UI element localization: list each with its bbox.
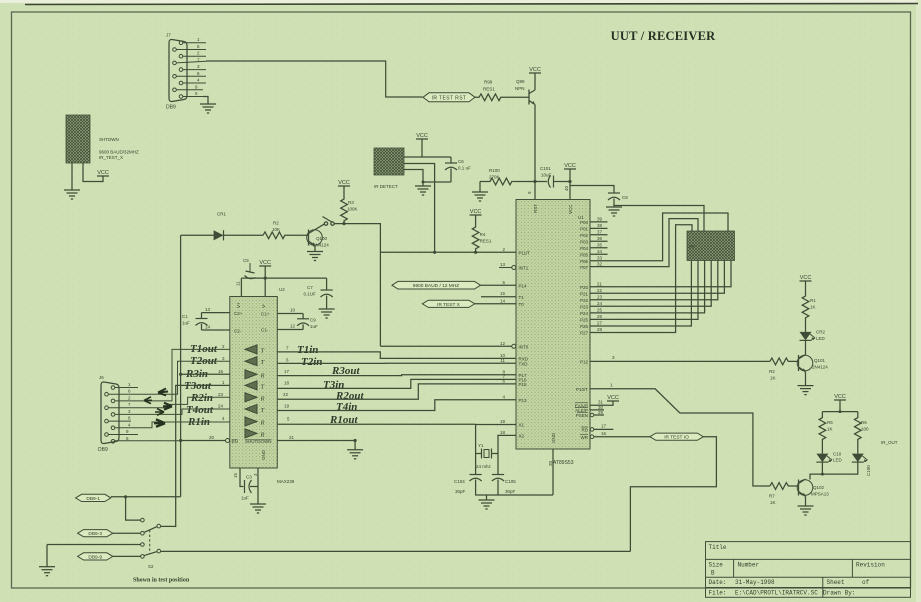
resistor R4 RES1 pullup [472,215,479,253]
U1 right pin numbers 39-32 [597,217,603,267]
wire U2 pin17 R3out to U1 P17 [277,374,516,377]
svg-text:30pF: 30pF [455,489,466,494]
wire IR TEST IO to switch S2 net [630,437,716,552]
svg-text:15: 15 [500,291,506,296]
svg-text:28: 28 [597,327,603,332]
svg-text:35: 35 [597,243,603,248]
wire J6 pin3 to T4out net [115,409,230,414]
crystal Y1 24mhz [482,449,492,459]
capacitor C6 0.1uF [445,157,471,182]
svg-text:13: 13 [205,307,211,312]
S2 upper throw contact [141,518,145,522]
wire J7 pin7 to IR TEST RST [206,61,423,97]
svg-text:R2: R2 [273,221,279,226]
svg-text:P07: P07 [580,265,589,270]
svg-text:19: 19 [500,419,506,424]
wire J6 pin7 to R2in net [108,397,230,407]
wire DB9-1 branch to S2 upper throw [126,497,141,520]
resistor R2 10K [263,221,289,239]
svg-text:LED: LED [833,458,843,463]
svg-text:IR_TEST_X: IR_TEST_X [99,155,123,160]
ground symbol under crystal [479,500,495,509]
title block texts [709,544,886,596]
svg-text:SHUTDOWN: SHUTDOWN [245,439,272,444]
ground rail under crystal caps [476,480,553,496]
wire J6 pin6 to T2out net [108,361,230,394]
U1 pin 20 GND bottom [552,449,554,495]
VCC above R4 RES1 [470,209,482,215]
svg-text:PSEN: PSEN [576,413,588,418]
wire U2 pin21 to ground junction [277,440,355,442]
svg-text:19: 19 [284,404,290,409]
wire X1 to Y1 [476,425,516,454]
svg-text:SHTDWN: SHTDWN [99,137,119,142]
svg-text:11: 11 [236,281,241,286]
capacitor C1 1uF (C2+/C2-) [182,313,208,330]
svg-text:15: 15 [233,472,238,478]
svg-text:24 mhz: 24 mhz [476,464,492,469]
svg-text:Number: Number [738,562,760,569]
svg-text:Sheet: Sheet [827,579,845,586]
VCC rail split [822,411,857,413]
svg-text:22: 22 [283,392,289,397]
svg-text:21: 21 [289,435,295,440]
svg-text:25: 25 [597,308,603,313]
wire C101 to VCC node and U1 pin40 [554,181,571,183]
svg-text:MAX239: MAX239 [277,479,295,484]
U2 right pin numbers 7,6,17,18,22,19,5,21 [283,346,295,441]
wire U2 pin18 T3in to U1 P16 [277,379,516,388]
diode CR1 [181,212,227,241]
svg-text:DB9-9: DB9-9 [88,554,102,560]
U2 buffer triangles [245,345,265,439]
svg-text:P15: P15 [519,382,528,387]
wire CR1 to R2 [224,234,264,236]
svg-text:9600 BAUD/32MHZ: 9600 BAUD/32MHZ [99,150,139,155]
LED C10 [816,452,842,463]
ALE/P pin 30 stub [590,409,604,411]
svg-text:V-: V- [261,303,266,308]
svg-text:RES1: RES1 [480,239,492,244]
net label IR TEST IO [650,433,703,440]
S2a arm [144,527,157,533]
svg-text:13: 13 [500,262,506,267]
wire IR DETECT pin1 / VCC / C6 top [404,156,451,158]
handwritten arrow right on pin3 row [155,409,164,416]
ground under R100 [479,182,481,193]
svg-text:P01: P01 [580,227,589,232]
U1 P00-P05 stubs [590,222,608,254]
wire P14 row [481,284,517,286]
svg-text:RES1: RES1 [483,87,495,92]
wires P20-P26 to RP1 bottom [590,261,731,327]
wire DB9-3 to S2a pole [113,532,141,534]
svg-text:20: 20 [209,435,215,440]
capacitor C3 1uF at U2 pin15 [240,475,258,501]
wire P27 to RP1 top [590,225,692,333]
svg-text:30pF: 30pF [505,489,516,494]
svg-text:UUT / RECEIVER: UUT / RECEIVER [611,29,716,43]
J6 pin circles [105,386,115,443]
wire U2 pin22 R2out to U1 P15 [277,384,516,399]
ground at far left [46,545,48,567]
svg-text:T: T [261,407,265,414]
wire VCC node to bypass C8 and RP1 common [570,186,614,194]
svg-text:LED: LED [816,336,826,341]
svg-text:P06: P06 [580,259,589,264]
svg-text:C8: C8 [622,195,628,200]
wire J6 pin2 to T1out net [115,349,230,401]
svg-text:12: 12 [500,341,506,346]
svg-text:Title: Title [709,544,727,551]
ground at Q102 emitter [805,496,807,506]
net label DB9-1 [76,494,111,501]
svg-text:12: 12 [290,324,296,329]
svg-text:Q100: Q100 [316,236,328,241]
svg-text:R2in: R2in [190,392,213,404]
junction at U2 pin21 ground [354,439,357,442]
test switch S1 above Q100 [314,217,335,231]
svg-text:RD: RD [582,428,589,433]
wire U2 pin5 R1out to X1 node [277,423,475,425]
capacitor C8 bypass [608,192,620,194]
wire INT0 to P1.1 node [380,345,511,347]
svg-text:22: 22 [597,288,603,293]
svg-text:1K: 1K [827,427,833,432]
svg-text:P05: P05 [580,253,589,258]
U2 pin 14 lead [202,329,230,331]
svg-text:C105: C105 [505,479,516,484]
header J8 VCC leg [83,163,103,182]
svg-text:C104: C104 [454,479,465,484]
ground at Q100 emitter [314,246,316,252]
svg-text:T1: T1 [519,295,525,300]
svg-text:R3: R3 [348,200,354,205]
svg-text:31-May-1998: 31-May-1998 [735,579,775,586]
svg-text:9600 BAUD / 12 MHZ: 9600 BAUD / 12 MHZ [413,283,459,289]
svg-text:38: 38 [597,223,603,228]
net label 9600 BAUD / 12 MHZ [392,281,481,289]
svg-text:32: 32 [597,261,603,266]
svg-text:R6: R6 [861,420,867,425]
svg-text:C5: C5 [243,258,249,263]
svg-text:T1in: T1in [297,344,318,356]
svg-text:R8: R8 [689,244,695,249]
svg-text:J7: J7 [166,33,171,38]
wire S2a throw to T3out vertical [161,525,176,527]
svg-text:P23: P23 [580,305,589,310]
wire S1 to R3 to P1.1 vertical [334,224,380,347]
svg-text:S2: S2 [148,564,154,569]
svg-text:T: T [261,347,265,354]
svg-text:14: 14 [205,325,211,330]
VCC above IR LEDs [834,394,846,400]
svg-text:of: of [862,579,870,586]
svg-text:0.1UF: 0.1UF [304,292,317,297]
capacitor C104 30pF [475,454,477,475]
svg-text:P11/T: P11/T [519,251,531,256]
long vertical CR1/R3in/EN net [180,235,182,497]
svg-text:DB9-3: DB9-3 [88,531,102,537]
wire P07 to RP1 top [590,219,698,267]
scanner edge line top [25,4,918,5]
ground under IR DETECT [422,182,424,186]
svg-text:IR DETECT: IR DETECT [374,184,398,189]
U2 internal pin names top [234,302,270,334]
svg-text:31: 31 [598,400,604,405]
capacitor C5 (polarized, at U2 pin 11) [243,258,256,279]
svg-text:C1+: C1+ [261,312,270,317]
connector J7 DB9 (top-left) [169,39,187,101]
svg-text:C101: C101 [540,166,551,171]
RD pin 17 stub with bubble [590,428,594,432]
handwritten arrow left on pin6 row [158,389,168,396]
svg-text:CR2: CR2 [816,330,825,335]
WR pin 16 with bubble to IR TEST IO [590,435,594,439]
connector J6 DB9 (bottom-left) [101,382,119,444]
U2 pin 15 bottom lead [239,468,241,480]
microcontroller U1 AT89S53 body [516,200,590,467]
IR DETECT module U3 (hatched) [374,148,404,189]
svg-text:17: 17 [284,369,290,374]
svg-text:T: T [261,359,265,366]
handwritten arrow right (filled) on pin7 row [163,403,172,410]
transistor Q100 2N4124 [289,230,323,246]
U1 right pin names lower group [575,360,589,440]
svg-text:GND: GND [261,449,266,460]
LED cathode rail to Q102 collector [810,462,858,479]
svg-text:C1-: C1- [261,328,269,333]
junction R3in/vertical [179,373,182,376]
svg-text:R: R [260,395,265,402]
S2a pole contact [141,531,145,535]
resistor R6 100 [855,412,862,454]
svg-text:C3: C3 [246,475,252,480]
svg-text:X1: X1 [519,423,525,428]
svg-text:P22: P22 [580,298,589,303]
svg-text:P12: P12 [580,360,589,365]
wire DB9-9 to S2b pole [113,555,141,557]
svg-text:20: 20 [548,460,553,466]
svg-text:P13: P13 [519,398,528,403]
wire R100 to C101 [514,181,547,183]
svg-text:270K: 270K [489,175,500,180]
svg-text:U2: U2 [279,287,285,292]
svg-text:1K: 1K [770,376,776,381]
U2 pin 12 lead [277,329,303,331]
svg-text:R5: R5 [827,420,833,425]
VCC above IR DETECT [416,133,428,139]
U2 MAX239 chip body [230,287,295,484]
EA/VP pin 31 to VCC [590,401,613,405]
net label IR TEST X [422,300,475,307]
wire J6 pin5 row joining EN net [115,440,181,442]
U2 pin 10 lead [277,313,303,315]
ground under C8 [613,199,615,208]
svg-text:R: R [260,372,265,379]
wire T0 row [475,303,516,305]
svg-text:INT0: INT0 [519,345,529,350]
wire P11/T row [380,251,516,253]
wire R99 to Q99 base [505,96,529,98]
svg-text:P27: P27 [580,331,589,336]
svg-text:P14: P14 [519,284,528,289]
svg-text:1K: 1K [770,500,776,505]
svg-text:100K: 100K [347,207,358,212]
svg-text:P20: P20 [580,285,589,290]
U2 pin 20 EN lead with bubble [181,439,238,445]
svg-text:R7: R7 [769,494,775,499]
wire P06 to RP1 top [590,213,728,261]
svg-text:IR_OUT: IR_OUT [881,440,898,445]
svg-text:RST: RST [533,204,538,213]
J7 pin circles [173,41,183,98]
svg-text:R: R [260,420,265,427]
svg-text:R: R [260,431,265,438]
net label DB9-3 [78,530,113,537]
svg-text:Revision: Revision [856,562,885,569]
S2a closed throw contact [157,524,161,528]
svg-text:P26: P26 [580,324,589,329]
svg-text:C10: C10 [833,452,842,457]
svg-text:1uF: 1uF [310,324,318,329]
PSEN pin 29 stub with bubble [590,413,594,417]
long vertical T3out net to switch [176,385,230,527]
wire J6 pin1 stub [115,387,138,389]
wire DB9-1 to vertical net [111,496,181,498]
wire U2 pin16 R3in row [181,373,230,375]
VCC above R1 [800,275,812,281]
svg-text:T0: T0 [519,302,525,307]
svg-text:1K: 1K [810,305,816,310]
junction EN row/vertical [179,439,182,442]
wire P10/T to Q102 base resistor [590,389,770,486]
VCC above U2 MAX239 [259,260,271,266]
svg-text:Q99: Q99 [516,79,525,84]
svg-text:R100: R100 [489,168,500,173]
resistor R1 1K (vertical) [802,281,809,332]
svg-text:11: 11 [500,358,505,363]
J6 pin numbers [126,382,131,441]
svg-text:Q102: Q102 [813,485,825,490]
svg-text:AT89S53: AT89S53 [553,460,574,466]
U1 left pin names [519,251,531,439]
svg-text:1uF: 1uF [241,496,249,501]
svg-text:R2: R2 [769,369,775,374]
svg-text:P25: P25 [580,318,589,323]
svg-text:P00: P00 [580,220,589,225]
svg-text:E:\CAD\PROTL\IRATRCV.SC: E:\CAD\PROTL\IRATRCV.SC [735,589,818,596]
svg-text:100: 100 [861,427,869,432]
svg-text:P04: P04 [580,246,589,251]
svg-text:17: 17 [601,423,607,428]
svg-text:CR1: CR1 [217,212,226,217]
ganged switch dashed link [149,530,151,554]
svg-text:23: 23 [597,295,603,300]
resistor R5 1K [819,412,826,454]
svg-text:T4out: T4out [186,404,214,416]
wire IR DETECT pin2 signal down to P1.1 node [404,164,435,253]
svg-text:27: 27 [597,321,603,326]
wire J6 pin9 stub [108,434,138,436]
resistor R99 RES1 [475,80,505,101]
svg-text:V+: V+ [236,302,241,308]
resistor R2 1K (Q101 base) [770,358,799,365]
U1 INT1 pin bubble [512,266,516,270]
S2b pole contact [141,555,145,559]
svg-text:10: 10 [290,308,296,313]
svg-text:14: 14 [500,298,506,303]
resistor R3 100K (vertical) [341,186,358,223]
svg-text:R99: R99 [484,80,493,85]
svg-text:18: 18 [284,381,290,386]
svg-text:C1: C1 [182,314,188,319]
handwritten arrow left on pin2 row [144,397,152,404]
svg-text:P21: P21 [580,291,589,296]
net label DB9-9 [78,553,113,560]
U2 pin 13 lead [202,312,230,314]
resistor R7 1K (Q102 base) [770,483,799,490]
U1 right pin numbers 21-28 [597,281,603,332]
resistor R100 270K [480,178,514,185]
svg-text:P03: P03 [580,240,589,245]
U2 VCC top lead with wire to C7 [241,277,326,279]
svg-text:C2+: C2+ [234,311,243,316]
svg-text:B: B [711,570,715,577]
title block [706,542,911,598]
wire J6 pin4 to R1in net [115,422,230,428]
svg-text:2N4124: 2N4124 [812,365,828,370]
svg-text:WR: WR [581,435,589,440]
svg-text:IR TEST X: IR TEST X [437,302,461,308]
svg-text:Drawn By:: Drawn By: [823,589,855,596]
S2b upper throw contact [141,543,145,547]
svg-text:Shown in test position: Shown in test position [133,578,190,584]
U2 pin 3 bottom lead [257,468,259,504]
VCC above R3 [338,180,350,186]
svg-text:21: 21 [597,281,603,286]
VCC at Q99 collector [534,73,536,90]
wire U2 pin19 T4in to U1 P13 [277,400,516,411]
ground at U2 pin21 [354,441,356,450]
svg-text:VCC: VCC [568,204,573,214]
svg-text:40: 40 [564,185,569,191]
svg-text:Q101: Q101 [814,358,826,363]
capacitor C101 10uF [548,176,550,188]
S2b closed throw contact [157,549,161,553]
svg-text:MPSA13: MPSA13 [811,492,829,497]
svg-text:EN: EN [232,439,238,444]
ground under C7 [319,309,335,318]
svg-text:23: 23 [218,392,224,397]
U1 right pin names P20-P27 [580,285,589,336]
J7 pin numbers [195,37,200,96]
handwritten arrow right (filled) on pin4 row [154,419,165,426]
svg-text:DB9: DB9 [166,105,176,111]
svg-text:36: 36 [597,236,603,241]
transistor Q101 2N4124 [797,355,813,372]
svg-text:P24: P24 [580,311,589,316]
svg-text:DB9-1: DB9-1 [86,496,100,502]
wire IR DETECT pin3 to ground node [404,170,451,183]
wire U2 pin7 T1in to U1 RXD [277,352,516,359]
svg-text:24: 24 [597,301,603,306]
svg-text:10K: 10K [272,227,280,232]
transistor Q99 NPN [529,90,535,105]
wire CR2 to Q101 collector [805,340,807,354]
LED CR2 [800,330,826,342]
svg-text:C7: C7 [307,285,313,290]
